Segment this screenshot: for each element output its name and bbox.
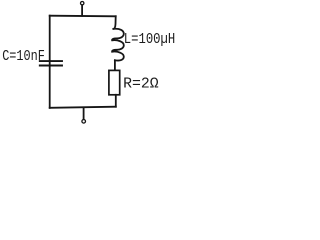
wire (bottom terminal stub) xyxy=(83,107,85,119)
svg-text:R=2Ω: R=2Ω xyxy=(123,77,159,93)
wire (top horizontal) xyxy=(50,15,116,18)
svg-text:L=100µH: L=100µH xyxy=(124,32,175,48)
wire (left branch, through capacitor) xyxy=(49,16,51,108)
wire (right branch, top wire to inductor) xyxy=(113,16,115,29)
wire (bottom horizontal) xyxy=(50,107,116,108)
wire (top terminal stub) xyxy=(81,5,83,16)
terminal T2 (bottom, open circle) xyxy=(82,120,86,124)
capacitor C1 top plate xyxy=(40,60,62,62)
svg-text:C=10nF: C=10nF xyxy=(2,49,45,65)
terminal T1 (top, open circle) xyxy=(81,2,84,5)
wire (resistor to bottom wire) xyxy=(115,95,117,107)
inductor L1 (3-loop coil) xyxy=(112,29,124,61)
capacitor C1 bottom plate xyxy=(40,65,62,67)
resistor R1 (box) xyxy=(109,70,120,94)
wire (inductor to resistor) xyxy=(114,60,116,70)
